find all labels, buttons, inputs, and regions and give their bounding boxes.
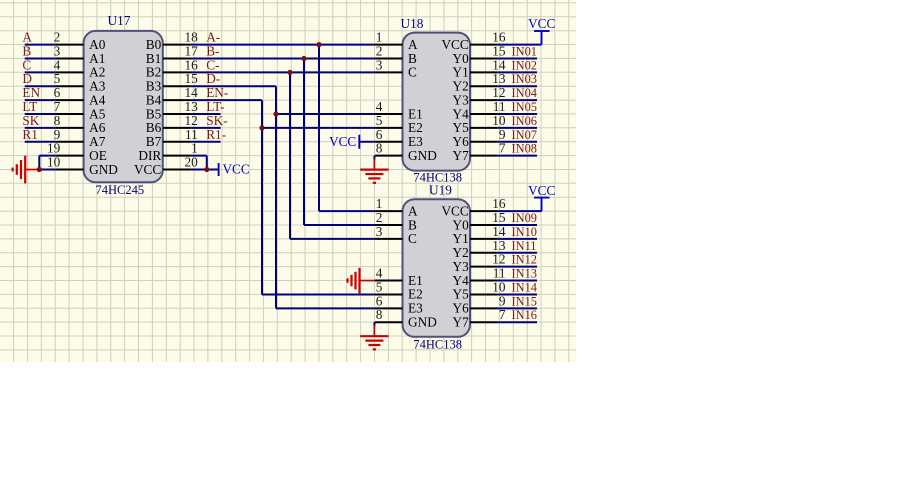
svg-text:4: 4 — [54, 57, 61, 72]
svg-text:20: 20 — [185, 155, 199, 170]
svg-text:Y3: Y3 — [453, 259, 470, 274]
svg-text:Y6: Y6 — [453, 134, 470, 149]
svg-text:15: 15 — [492, 43, 506, 58]
svg-text:2: 2 — [376, 43, 383, 58]
svg-text:B4: B4 — [146, 92, 162, 107]
svg-text:Y0: Y0 — [453, 51, 470, 66]
svg-text:R1-: R1- — [206, 127, 226, 142]
svg-text:VCC: VCC — [223, 162, 250, 177]
svg-text:6: 6 — [376, 293, 383, 308]
svg-text:IN05: IN05 — [512, 100, 537, 114]
svg-text:A: A — [22, 30, 32, 45]
svg-text:VCC: VCC — [528, 183, 555, 198]
svg-text:12: 12 — [492, 252, 505, 267]
svg-text:6: 6 — [376, 127, 383, 142]
svg-text:12: 12 — [185, 113, 198, 128]
svg-text:IN01: IN01 — [512, 44, 537, 58]
svg-text:A2: A2 — [89, 65, 105, 80]
svg-text:IN07: IN07 — [512, 128, 537, 142]
svg-text:SK-: SK- — [206, 113, 227, 128]
svg-text:2: 2 — [54, 30, 61, 45]
svg-text:Y1: Y1 — [453, 65, 469, 80]
svg-text:4: 4 — [376, 99, 383, 114]
svg-text:B1: B1 — [146, 51, 162, 66]
svg-text:6: 6 — [54, 85, 61, 100]
svg-text:IN06: IN06 — [512, 114, 537, 128]
svg-text:A7: A7 — [89, 134, 106, 149]
svg-text:Y4: Y4 — [453, 273, 470, 288]
svg-text:EN: EN — [22, 85, 40, 100]
svg-text:3: 3 — [54, 43, 61, 58]
svg-text:Y5: Y5 — [453, 120, 470, 135]
svg-text:C-: C- — [206, 57, 219, 72]
svg-text:GND: GND — [408, 148, 437, 163]
svg-text:13: 13 — [185, 99, 199, 114]
svg-text:17: 17 — [185, 43, 199, 58]
svg-text:12: 12 — [492, 85, 505, 100]
svg-text:IN10: IN10 — [512, 225, 537, 239]
svg-text:10: 10 — [492, 279, 506, 294]
svg-text:13: 13 — [492, 71, 506, 86]
svg-text:11: 11 — [493, 99, 506, 114]
svg-text:3: 3 — [376, 57, 383, 72]
svg-text:B: B — [408, 51, 417, 66]
svg-text:A: A — [408, 203, 418, 218]
svg-text:IN14: IN14 — [512, 280, 537, 294]
svg-text:E2: E2 — [408, 287, 423, 302]
svg-text:5: 5 — [54, 71, 61, 86]
svg-text:E1: E1 — [408, 273, 423, 288]
svg-text:3: 3 — [376, 224, 383, 239]
svg-text:A: A — [408, 37, 418, 52]
svg-text:13: 13 — [492, 238, 506, 253]
svg-text:DIR: DIR — [138, 148, 161, 163]
svg-text:Y4: Y4 — [453, 106, 470, 121]
svg-text:14: 14 — [492, 224, 506, 239]
svg-text:C: C — [408, 65, 417, 80]
svg-text:Y6: Y6 — [453, 301, 470, 316]
svg-text:Y7: Y7 — [453, 148, 470, 163]
svg-text:9: 9 — [499, 127, 506, 142]
svg-text:Y3: Y3 — [453, 92, 470, 107]
svg-text:7: 7 — [499, 141, 506, 156]
svg-text:16: 16 — [492, 196, 506, 211]
svg-text:U18: U18 — [401, 16, 424, 31]
svg-text:9: 9 — [54, 127, 61, 142]
svg-text:1: 1 — [376, 30, 383, 45]
svg-text:19: 19 — [47, 141, 61, 156]
svg-text:IN09: IN09 — [512, 211, 537, 225]
svg-text:B: B — [22, 43, 31, 58]
svg-text:18: 18 — [185, 30, 199, 45]
svg-text:15: 15 — [492, 210, 506, 225]
svg-text:7: 7 — [54, 99, 61, 114]
svg-text:10: 10 — [492, 113, 506, 128]
svg-text:16: 16 — [185, 57, 199, 72]
svg-text:Y7: Y7 — [453, 315, 470, 330]
svg-text:7: 7 — [499, 307, 506, 322]
svg-text:15: 15 — [185, 71, 199, 86]
svg-text:1: 1 — [376, 196, 383, 211]
svg-text:GND: GND — [89, 162, 118, 177]
svg-text:IN16: IN16 — [512, 308, 537, 322]
svg-text:8: 8 — [54, 113, 61, 128]
svg-text:U17: U17 — [108, 13, 131, 28]
svg-text:A1: A1 — [89, 51, 105, 66]
svg-text:B0: B0 — [146, 37, 162, 52]
svg-text:A4: A4 — [89, 92, 106, 107]
svg-text:B5: B5 — [146, 106, 162, 121]
svg-text:16: 16 — [492, 30, 506, 45]
svg-text:LT: LT — [22, 99, 37, 114]
svg-text:IN08: IN08 — [512, 142, 537, 156]
svg-text:4: 4 — [376, 266, 383, 281]
svg-text:IN13: IN13 — [512, 267, 537, 281]
svg-text:9: 9 — [499, 293, 506, 308]
svg-text:11: 11 — [493, 266, 506, 281]
svg-text:B3: B3 — [146, 79, 162, 94]
svg-text:E3: E3 — [408, 301, 423, 316]
svg-text:VCC: VCC — [528, 16, 555, 31]
svg-text:U19: U19 — [429, 183, 452, 198]
svg-text:D-: D- — [206, 71, 220, 86]
svg-text:Y0: Y0 — [453, 217, 470, 232]
svg-text:C: C — [22, 57, 31, 72]
svg-text:GND: GND — [408, 315, 437, 330]
svg-text:Y1: Y1 — [453, 231, 469, 246]
svg-text:IN04: IN04 — [512, 86, 537, 100]
svg-text:Y2: Y2 — [453, 245, 469, 260]
svg-text:B2: B2 — [146, 65, 162, 80]
svg-text:IN02: IN02 — [512, 58, 537, 72]
svg-text:VCC: VCC — [441, 37, 468, 52]
svg-text:Y5: Y5 — [453, 287, 470, 302]
svg-text:R1: R1 — [22, 127, 38, 142]
svg-text:B-: B- — [206, 43, 219, 58]
svg-text:E1: E1 — [408, 106, 423, 121]
svg-text:B7: B7 — [146, 134, 162, 149]
svg-text:B6: B6 — [146, 120, 162, 135]
svg-text:D: D — [22, 71, 32, 86]
svg-text:IN12: IN12 — [512, 253, 537, 267]
svg-text:A6: A6 — [89, 120, 106, 135]
svg-text:8: 8 — [376, 307, 383, 322]
svg-text:C: C — [408, 231, 417, 246]
svg-text:E2: E2 — [408, 120, 423, 135]
svg-text:OE: OE — [89, 148, 107, 163]
svg-text:A-: A- — [206, 30, 220, 45]
svg-text:SK: SK — [22, 113, 39, 128]
svg-text:1: 1 — [191, 141, 198, 156]
svg-text:VCC: VCC — [329, 134, 356, 149]
svg-text:A3: A3 — [89, 79, 106, 94]
svg-text:14: 14 — [492, 57, 506, 72]
svg-text:11: 11 — [185, 127, 198, 142]
svg-text:LT-: LT- — [206, 99, 224, 114]
svg-text:IN15: IN15 — [512, 294, 537, 308]
svg-text:2: 2 — [376, 210, 383, 225]
svg-text:Y2: Y2 — [453, 79, 469, 94]
svg-text:14: 14 — [185, 85, 199, 100]
svg-text:EN-: EN- — [206, 85, 228, 100]
svg-text:74HC138: 74HC138 — [413, 337, 462, 351]
svg-text:5: 5 — [376, 113, 383, 128]
svg-text:A5: A5 — [89, 106, 106, 121]
svg-text:VCC: VCC — [134, 162, 161, 177]
svg-text:A0: A0 — [89, 37, 106, 52]
svg-text:5: 5 — [376, 279, 383, 294]
svg-text:IN03: IN03 — [512, 72, 537, 86]
svg-text:B: B — [408, 217, 417, 232]
svg-text:E3: E3 — [408, 134, 423, 149]
svg-text:8: 8 — [376, 141, 383, 156]
svg-text:74HC245: 74HC245 — [96, 183, 145, 197]
svg-text:VCC: VCC — [441, 203, 468, 218]
svg-text:IN11: IN11 — [512, 239, 537, 253]
svg-text:10: 10 — [47, 155, 61, 170]
